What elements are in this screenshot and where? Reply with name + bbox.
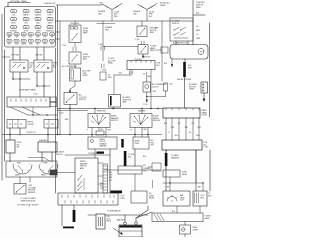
wire - stub right [193, 14, 205, 16]
wire - feed drop left [102, 21, 104, 35]
vacuum tank box right-middle [152, 163, 161, 171]
svg-text:FEED: FEED [150, 50, 155, 52]
svg-text:VOLT: VOLT [201, 195, 205, 197]
svg-text:TO INST LPS: TO INST LPS [26, 132, 36, 134]
fuse row 3 position 3 [35, 26, 41, 29]
fuse row 2 position 3 [35, 18, 41, 21]
wire - FL2 tap down [146, 10, 148, 22]
terminal boxes at end of strip [50, 97, 57, 102]
svg-text:FUSE BLOCK: FUSE BLOCK [44, 3, 56, 5]
printed circuit connector B [44, 120, 58, 129]
splice loom horizontal [97, 152, 105, 154]
svg-text:F: F [30, 164, 31, 166]
svg-text:HTR AC: HTR AC [10, 29, 17, 32]
svg-text:TURN B/U: TURN B/U [35, 55, 43, 57]
ignition coil box [96, 214, 105, 229]
svg-text:ASM: ASM [83, 58, 87, 61]
wire - junction link y86 [37, 85, 50, 87]
wire - cluster drops [19, 177, 21, 184]
lower right connector box [152, 213, 203, 222]
svg-text:C 100: C 100 [62, 45, 66, 47]
svg-text:CLST: CLST [180, 200, 184, 202]
svg-text:WPR: WPR [48, 22, 53, 24]
svg-text:E: E [14, 164, 15, 166]
temp gauge G2 [39, 165, 58, 174]
svg-text:C 100: C 100 [98, 44, 103, 46]
wiper-washer switch column box [75, 158, 98, 193]
svg-text:P: P [87, 130, 88, 132]
svg-text:C100: C100 [99, 3, 103, 5]
wire - relay outputs [12, 72, 14, 79]
wire - clutch feed from above [146, 72, 148, 82]
wire - right vertical bus from top [192, 0, 194, 45]
ground strap bar [63, 227, 74, 229]
blower motor M1 [170, 45, 208, 60]
wire - jog from fuse block to FL1 [101, 4, 103, 7]
svg-text:M: M [200, 52, 202, 54]
svg-text:C 200: C 200 [59, 113, 63, 115]
svg-text:ASM: ASM [80, 167, 84, 170]
wire - drop to washer pump switch [141, 109, 143, 114]
svg-text:CHMSL: CHMSL [21, 44, 27, 46]
fuse row 4 position 3 [21, 33, 26, 36]
wire - switch drops [91, 128, 93, 138]
svg-text:ORN: ORN [153, 91, 156, 93]
svg-text:RADIO: RADIO [23, 13, 29, 16]
horn switch box H2 [69, 52, 81, 64]
svg-text:CONN: CONN [202, 115, 208, 117]
junction box above generator [163, 170, 180, 177]
svg-text:C100: C100 [169, 84, 173, 86]
wire - right page bus [209, 23, 211, 117]
wire - bus y183 bottom right [163, 182, 203, 184]
svg-text:SW: SW [128, 156, 131, 158]
svg-text:CTRL: CTRL [204, 147, 209, 149]
heater control head [127, 61, 155, 70]
wire - junction link y79 [13, 78, 30, 80]
wire - drop to junction [102, 35, 104, 61]
wiper motor box with text [88, 137, 117, 149]
wire - connector drop [203, 93, 205, 99]
inline connector left of blower motor [161, 47, 168, 53]
fuse row 5 position 6 [43, 40, 48, 43]
svg-text:PRNTD: PRNTD [28, 122, 34, 124]
splice loom below control [165, 153, 168, 166]
wire - secondary line y110.5 [57, 110, 88, 112]
fuse row 4 position 6 [43, 33, 48, 36]
printed circuit connector A [7, 120, 26, 129]
wire - hot feed at top of fuse block [7, 3, 9, 8]
wire - FL1 tap down [111, 10, 113, 22]
dimmer relay box [118, 166, 142, 174]
wire - strip drops [61, 205, 63, 226]
fuse row 4 position 7 [50, 33, 55, 36]
splice loom lower left [73, 210, 76, 222]
wire - center drops [109, 149, 111, 170]
wire - drop to lower connector [109, 170, 111, 193]
svg-text:SWITCH: SWITCH [172, 23, 180, 25]
ignition connector small [96, 131, 104, 135]
relay K2 [34, 60, 52, 72]
washer pump switch S3 with contact fan [130, 114, 152, 128]
svg-text:C 100: C 100 [135, 39, 139, 41]
wire - line y155 across [65, 154, 110, 156]
fuse row 1 position 1 [11, 10, 17, 13]
fusible link FL2 [138, 4, 157, 10]
svg-text:PPL: PPL [192, 123, 195, 125]
svg-text:HOT AT ALL TIMES: HOT AT ALL TIMES [10, 0, 27, 3]
dimmer connector on cluster right edge [50, 170, 57, 175]
washer pump box [133, 137, 149, 149]
svg-text:SW: SW [29, 67, 32, 69]
svg-text:TIME: TIME [83, 73, 87, 75]
fuse block [5, 7, 56, 48]
generator / gauge box [163, 191, 190, 206]
wire - horizontal feed into B2 [103, 46, 138, 48]
a/c time delay relay K3 [70, 68, 81, 81]
fuse row 2 position 2 [23, 18, 29, 21]
splice loom vertical center [124, 151, 127, 166]
wire - box to ladder links [98, 162, 103, 164]
fuse row 3 position 1 [11, 26, 17, 29]
junction box B2 [138, 45, 148, 55]
svg-text:SWITCH: SWITCH [79, 99, 86, 101]
wire - blower motor ground drop [184, 59, 186, 62]
svg-text:WDO: WDO [11, 22, 16, 24]
wire - main feed under fusible links [56, 20, 194, 22]
wire - right bus lower [209, 150, 211, 191]
horn assembly switch box [64, 93, 77, 105]
wire - motor box to switch column [94, 149, 96, 158]
svg-text:GRN: GRN [148, 76, 151, 78]
wire - arrow below B2 to horn [142, 54, 144, 57]
svg-text:CTSY: CTSY [48, 14, 54, 16]
fuse row 5 position 7 [50, 40, 55, 43]
svg-text:WASHER: WASHER [138, 110, 146, 113]
battery BT1 [119, 225, 142, 237]
svg-text:PUMP: PUMP [135, 143, 140, 145]
wire - left bus taps [1, 14, 3, 180]
wire - generator to lower connector [176, 206, 178, 213]
hazard flasher box [38, 142, 57, 152]
bulkhead connector right [163, 108, 200, 118]
splice loom (heavy wire) right of center [183, 62, 186, 77]
fuse row 5 position 5 [35, 40, 40, 43]
svg-text:SWITCH: SWITCH [111, 120, 118, 122]
wire - connector to starter gauge [184, 222, 186, 226]
svg-text:MED: MED [196, 30, 201, 32]
blower resistor R1 [109, 95, 121, 108]
wire - H1 to connector [74, 43, 76, 48]
wire - second feed [97, 23, 115, 25]
wire - drop left of wiper switch [69, 109, 71, 135]
svg-text:POS: POS [166, 187, 169, 189]
junction box B1 [137, 26, 147, 37]
wire - fuse block to C100 [56, 4, 101, 6]
svg-text:FEED: FEED [150, 32, 155, 34]
fuse row 1 position 4 [47, 10, 53, 13]
svg-text:LT: LT [168, 132, 170, 134]
svg-text:BLK: BLK [172, 211, 175, 213]
svg-text:TURN: TURN [36, 30, 42, 32]
svg-text:PRT: PRT [43, 44, 46, 46]
wire - battery terminal feeds [124, 215, 126, 222]
fuse row 5 position 3 [21, 40, 26, 43]
svg-text:MODULE: MODULE [153, 120, 161, 122]
wire - fuse block drops to relays [12, 47, 14, 60]
low fuel module switch box [14, 184, 26, 195]
wire - drop from control right side [150, 70, 152, 109]
wire - control drop to resistor [114, 74, 131, 76]
blower switch S1 [170, 18, 193, 41]
wire - arrow to engine harness [113, 228, 122, 234]
wire - gauge to bottom edge [184, 234, 186, 237]
splice bar between motor boxes [121, 139, 123, 148]
svg-text:BRN: BRN [65, 119, 68, 121]
svg-text:C 200: C 200 [33, 94, 38, 96]
wire - drops from connectors [9, 128, 11, 135]
wire - resistor to harness line [113, 107, 115, 109]
wire - right drop x162 [161, 21, 163, 34]
turn signal switch [6, 140, 15, 153]
svg-text:CNTRL: CNTRL [149, 195, 154, 197]
svg-text:HEAD: HEAD [108, 62, 113, 65]
wire - control drops [165, 150, 167, 191]
svg-text:TO WIPER MOTOR: TO WIPER MOTOR [88, 153, 103, 155]
wire - H2 to compressor relay [74, 64, 76, 68]
wiper switch S2 with contact fan [88, 114, 110, 128]
fuse row 4 position 4 [28, 33, 33, 36]
blower connector right [201, 82, 208, 93]
svg-text:GEN: GEN [208, 195, 211, 197]
svg-text:SW: SW [17, 147, 20, 149]
wire - mid bus verticals [55, 48, 57, 193]
wire - clutch ground arrow [146, 97, 148, 101]
wire - relay down to cycling switch [74, 81, 76, 86]
svg-text:TIMES: TIMES [160, 5, 166, 7]
splice loom near battery [111, 191, 123, 194]
svg-text:WIPER: WIPER [100, 139, 106, 141]
wire - strip diagonals [10, 107, 40, 115]
wire - H1 feed from main line [74, 21, 76, 25]
svg-text:C 100: C 100 [143, 104, 147, 106]
wire - coil to battery [88, 214, 96, 216]
svg-text:GRND: GRND [189, 89, 195, 91]
svg-text:FLASHER: FLASHER [39, 139, 48, 142]
svg-text:INSTRUMENT PANEL: INSTRUMENT PANEL [19, 89, 36, 92]
wire - main harness line y108.5 [57, 108, 163, 110]
bulkhead box inner ticks [166, 108, 199, 110]
starter / ground gauge box [180, 225, 191, 234]
a/c compressor clutch coil [143, 82, 151, 92]
wire - cluster link y157 [28, 157, 44, 159]
connector ladder right of switch box [103, 164, 108, 193]
svg-text:SWITCH: SWITCH [56, 154, 63, 156]
wire - junction line y115 [28, 114, 57, 116]
voltage regulator box [193, 191, 207, 206]
wire - cluster feed drops [9, 153, 11, 162]
svg-text:HARNESS: HARNESS [171, 156, 180, 159]
wire - blower switch feed drop with arrow [171, 59, 173, 66]
instrument cluster frame [6, 161, 57, 177]
svg-text:CONN: CONN [120, 198, 126, 200]
svg-text:ORN: ORN [196, 38, 201, 40]
svg-text:INJ 1: INJ 1 [8, 44, 12, 46]
wire - drop to wiper switch [94, 109, 96, 114]
svg-text:GRN: GRN [108, 77, 111, 79]
ignition feed box [131, 191, 147, 203]
wire - stub right of loom [152, 180, 154, 188]
svg-text:BLOWER MOTOR: BLOWER MOTOR [173, 43, 188, 45]
fuse row 5 position 1 [7, 40, 12, 43]
svg-text:MOTOR: MOTOR [100, 141, 107, 143]
svg-text:ILL: ILL [23, 37, 25, 39]
heater a/c control assembly [162, 140, 202, 150]
wire - horn drop [69, 105, 71, 109]
fuse row 1 position 2 [23, 10, 29, 13]
svg-text:DK: DK [108, 75, 110, 77]
thermostat box [100, 72, 106, 80]
svg-text:WSHR: WSHR [135, 141, 141, 143]
wire - fuse block right stubs [56, 31, 61, 33]
fuse row 5 position 2 [14, 40, 19, 43]
svg-text:TO ALTERNATOR: TO ALTERNATOR [107, 210, 122, 213]
wire - cross line y170 [104, 169, 160, 171]
svg-text:CLUTCH: CLUTCH [152, 86, 159, 88]
wire - switch to motor [175, 41, 177, 45]
fuse row 3 position 4 [47, 26, 53, 29]
fuel gauge G1 [13, 165, 32, 174]
wire - loom continue [184, 77, 186, 108]
wire - control drop left with C100 [130, 70, 132, 76]
wire - cluster to wiper switch box [57, 172, 75, 174]
fuse row 4 position 1 [7, 33, 12, 36]
wires - bulkhead drops [165, 118, 167, 140]
svg-text:BATTERY: BATTERY [117, 219, 126, 222]
svg-text:YEL: YEL [178, 123, 181, 125]
fuse row 5 position 4 [28, 40, 33, 43]
svg-text:PPL: PPL [143, 165, 146, 167]
fusible link FL1 [103, 4, 122, 10]
fuse row 2 position 4 [47, 18, 53, 21]
fuse row 3 position 2 [23, 26, 29, 29]
svg-text:PPL: PPL [109, 180, 112, 182]
svg-text:TAIL: TAIL [36, 21, 40, 24]
svg-text:PW: PW [44, 37, 47, 39]
svg-text:PNK: PNK [144, 129, 147, 131]
svg-text:ASM: ASM [123, 101, 127, 104]
wire - bus y134.5 left [2, 134, 88, 136]
clutch diode box [164, 83, 168, 91]
instrument panel connector strip [7, 97, 50, 107]
lower connector strip C200 [58, 193, 118, 205]
horn relay box H1 [69, 25, 81, 43]
svg-text:CIRCUIT: CIRCUIT [28, 124, 34, 126]
svg-text:GRY: GRY [108, 130, 111, 132]
wire - stub to vacuum tank [148, 166, 152, 168]
svg-text:C100: C100 [118, 73, 122, 75]
connector right of center [101, 64, 103, 68]
svg-text:SENSOR: SENSOR [28, 192, 36, 194]
fuse row 4 position 2 [14, 33, 19, 36]
svg-text:TO ENG: TO ENG [205, 216, 212, 218]
fuse row 1 position 3 [35, 10, 41, 13]
svg-text:TEMP: TEMP [43, 163, 47, 165]
svg-text:FUEL: FUEL [17, 163, 21, 165]
svg-text:STOP: STOP [24, 30, 30, 32]
wire - diagonal from battery positive [136, 212, 152, 218]
svg-text:GAGES: GAGES [35, 13, 42, 16]
svg-text:WIPER SW: WIPER SW [97, 111, 106, 113]
svg-text:BLK: BLK [101, 129, 104, 131]
svg-text:BAT: BAT [8, 36, 11, 39]
svg-text:SENSOR MODULE: SENSOR MODULE [21, 201, 37, 203]
fuse row 4 position 5 [35, 33, 40, 36]
fuse row 2 position 1 [11, 18, 17, 21]
svg-text:FEED: FEED [196, 7, 201, 9]
relay K1 [10, 60, 28, 72]
svg-text:DK: DK [143, 74, 145, 76]
wire - loom drop into junction box [165, 150, 167, 170]
svg-text:FEED: FEED [83, 33, 88, 35]
wire - clutch bottom loop [146, 92, 148, 97]
svg-text:ECM: ECM [15, 44, 19, 46]
svg-text:PWR ACC: PWR ACC [46, 29, 55, 32]
wire - harness line y134.5 across center [88, 134, 162, 136]
